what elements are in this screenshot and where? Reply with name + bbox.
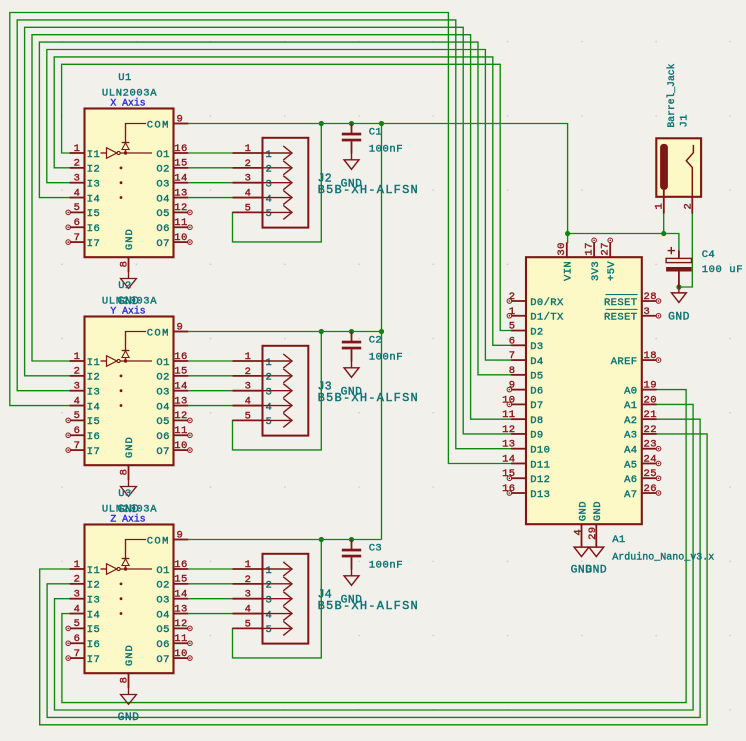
svg-text:B5B-XH-ALFSN: B5B-XH-ALFSN bbox=[318, 599, 419, 613]
U2 pin 1 (I1) bbox=[70, 351, 101, 369]
J2 pin 1 bbox=[233, 143, 293, 161]
J3 value B5B-XH-A(LF)(SN) bbox=[318, 391, 419, 405]
svg-text:19: 19 bbox=[644, 380, 657, 392]
svg-text:7: 7 bbox=[74, 440, 81, 452]
svg-text:I5: I5 bbox=[87, 416, 100, 428]
J4 pin 3 bbox=[233, 589, 293, 607]
svg-text:27: 27 bbox=[600, 242, 612, 255]
A1 pin 20 (A1) bbox=[624, 394, 657, 412]
svg-text:9: 9 bbox=[177, 321, 184, 333]
wire bbox=[188, 539, 381, 541]
A1 pin 8 (D5) bbox=[509, 365, 544, 383]
svg-text:26: 26 bbox=[644, 483, 657, 495]
svg-text:15: 15 bbox=[174, 366, 187, 378]
svg-text:5: 5 bbox=[245, 202, 252, 214]
U3 pin 14 (O3) bbox=[156, 589, 188, 607]
svg-text:D9: D9 bbox=[530, 430, 543, 442]
svg-text:D6: D6 bbox=[530, 385, 543, 397]
svg-text:15: 15 bbox=[174, 158, 187, 170]
ground bbox=[341, 154, 363, 191]
J4 pin 2 bbox=[233, 574, 293, 592]
svg-text:D7: D7 bbox=[530, 400, 543, 412]
svg-text:14: 14 bbox=[174, 589, 187, 601]
J3 pin 3 bbox=[233, 381, 293, 399]
junction bbox=[319, 121, 324, 126]
J4 pin 1 bbox=[233, 559, 293, 577]
svg-text:7: 7 bbox=[509, 350, 516, 362]
svg-text:8: 8 bbox=[119, 261, 131, 268]
svg-text:C3: C3 bbox=[369, 543, 382, 555]
A1 pin 4 (GND) bbox=[572, 501, 589, 547]
A1 pin 5 (D2) bbox=[509, 321, 544, 339]
svg-text:O4: O4 bbox=[156, 401, 169, 413]
svg-text:GND: GND bbox=[585, 564, 607, 576]
svg-text:3: 3 bbox=[74, 173, 81, 185]
svg-text:A7: A7 bbox=[624, 489, 637, 501]
svg-text:GND: GND bbox=[668, 311, 690, 323]
svg-text:5: 5 bbox=[74, 618, 81, 630]
svg-text:Z Axis: Z Axis bbox=[110, 514, 145, 525]
svg-text:COM: COM bbox=[147, 119, 170, 131]
svg-text:12: 12 bbox=[502, 424, 515, 436]
svg-text:O3: O3 bbox=[156, 595, 169, 607]
svg-text:GND: GND bbox=[124, 644, 136, 666]
svg-text:O1: O1 bbox=[156, 565, 169, 577]
U2 pin 7 (I7) bbox=[66, 440, 100, 458]
U2 pin 15 (O2) bbox=[156, 366, 188, 384]
svg-text:C1: C1 bbox=[369, 127, 382, 139]
A1 pin 16 (D13) bbox=[502, 483, 550, 501]
C3 reference bbox=[369, 543, 382, 555]
svg-text:D13: D13 bbox=[530, 489, 550, 501]
U3 pin 4 (I4) bbox=[70, 603, 101, 621]
svg-text:O2: O2 bbox=[156, 372, 169, 384]
svg-text:A2: A2 bbox=[624, 415, 637, 427]
svg-text:17: 17 bbox=[584, 242, 596, 255]
svg-text:1: 1 bbox=[654, 203, 666, 210]
junction bbox=[565, 231, 570, 236]
svg-text:14: 14 bbox=[502, 453, 515, 465]
connector J3 body bbox=[263, 346, 309, 436]
svg-text:O3: O3 bbox=[156, 179, 169, 191]
U2 pin 2 (I2) bbox=[70, 366, 101, 384]
svg-text:4: 4 bbox=[74, 603, 81, 615]
U2 pin 4 (I4) bbox=[70, 395, 101, 413]
U1 pin 13 (O4) bbox=[156, 187, 188, 205]
svg-text:1: 1 bbox=[245, 351, 252, 363]
svg-text:5: 5 bbox=[266, 208, 273, 220]
A1 pin 11 (D8) bbox=[502, 409, 544, 427]
svg-text:5: 5 bbox=[74, 202, 81, 214]
svg-text:I3: I3 bbox=[87, 179, 100, 191]
wire bbox=[47, 50, 511, 361]
label "Y Axis" bbox=[110, 306, 145, 317]
A1 pin 17 (3V3) bbox=[584, 238, 603, 281]
U2 pin 16 (O1) bbox=[156, 351, 188, 369]
svg-text:8: 8 bbox=[119, 677, 131, 684]
wire bbox=[188, 583, 232, 585]
U2 pin 8 (GND) bbox=[119, 436, 136, 480]
svg-text:D3: D3 bbox=[530, 341, 543, 353]
A1 pin 1 (D1/TX) bbox=[507, 306, 564, 324]
A1 value Arduino_Nano_v3.x bbox=[612, 552, 714, 564]
svg-text:I4: I4 bbox=[87, 193, 100, 205]
svg-text:5: 5 bbox=[509, 321, 516, 333]
svg-text:22: 22 bbox=[644, 424, 657, 436]
svg-text:4: 4 bbox=[74, 395, 81, 407]
U1 pin 14 (O3) bbox=[156, 173, 188, 191]
U1 pin 3 (I3) bbox=[70, 173, 101, 191]
A1 pin 14 (D11) bbox=[502, 453, 550, 471]
svg-text:12: 12 bbox=[174, 618, 187, 630]
wire bbox=[663, 214, 665, 234]
wire bbox=[233, 124, 322, 242]
svg-text:1: 1 bbox=[266, 357, 273, 369]
svg-text:O6: O6 bbox=[156, 431, 169, 443]
svg-text:U3: U3 bbox=[118, 488, 131, 500]
svg-text:O4: O4 bbox=[156, 609, 169, 621]
wire bbox=[55, 404, 694, 710]
svg-text:D4: D4 bbox=[530, 356, 543, 368]
U3 reference bbox=[118, 488, 131, 500]
U2 reference bbox=[118, 280, 131, 292]
svg-text:4: 4 bbox=[266, 609, 273, 621]
ground bbox=[585, 547, 607, 576]
svg-text:U1: U1 bbox=[118, 72, 131, 84]
svg-text:11: 11 bbox=[174, 425, 187, 437]
junction bbox=[379, 121, 384, 126]
svg-text:2: 2 bbox=[682, 203, 694, 210]
A1 pin 26 (A7) bbox=[624, 483, 661, 501]
U2 pin 9 COM bbox=[147, 321, 189, 339]
svg-text:1: 1 bbox=[266, 149, 273, 161]
svg-text:I5: I5 bbox=[87, 208, 100, 220]
U3 pin 11 (O6) bbox=[156, 633, 192, 651]
svg-text:6: 6 bbox=[74, 217, 81, 229]
svg-text:O6: O6 bbox=[156, 639, 169, 651]
svg-text:I2: I2 bbox=[87, 164, 100, 176]
svg-text:O4: O4 bbox=[156, 193, 169, 205]
svg-text:D10: D10 bbox=[530, 445, 550, 457]
svg-text:2: 2 bbox=[74, 574, 81, 586]
connector J2 body bbox=[263, 138, 309, 228]
wire bbox=[188, 598, 232, 600]
svg-text:B5B-XH-ALFSN: B5B-XH-ALFSN bbox=[318, 183, 419, 197]
U2 pin 3 (I3) bbox=[70, 381, 101, 399]
svg-text:11: 11 bbox=[174, 633, 187, 645]
svg-text:3: 3 bbox=[266, 595, 273, 607]
wire bbox=[568, 234, 679, 251]
wire bbox=[62, 64, 512, 330]
svg-text:9: 9 bbox=[177, 113, 184, 125]
svg-text:6: 6 bbox=[509, 335, 516, 347]
J4 pin 4 bbox=[233, 604, 293, 622]
J2 pin 3 bbox=[233, 173, 293, 191]
svg-text:3: 3 bbox=[644, 306, 651, 318]
svg-text:O5: O5 bbox=[156, 624, 169, 636]
junction bbox=[349, 329, 354, 334]
U1 pin 6 (I6) bbox=[66, 217, 100, 235]
A1 pin 19 (A0) bbox=[624, 380, 657, 398]
J1 reference bbox=[679, 114, 691, 127]
wire bbox=[188, 182, 232, 184]
wire bbox=[188, 124, 567, 243]
ground bbox=[341, 570, 363, 607]
A1 pin 23 (A4) bbox=[624, 439, 661, 457]
svg-text:2: 2 bbox=[266, 164, 273, 176]
A1 pin 13 (D10) bbox=[502, 439, 550, 457]
U1 pin 11 (O6) bbox=[156, 217, 192, 235]
svg-text:3: 3 bbox=[245, 173, 252, 185]
svg-text:5: 5 bbox=[266, 624, 273, 636]
svg-text:6: 6 bbox=[74, 425, 81, 437]
svg-text:4: 4 bbox=[266, 193, 273, 205]
svg-text:I3: I3 bbox=[87, 387, 100, 399]
svg-text:D12: D12 bbox=[530, 474, 550, 486]
svg-text:18: 18 bbox=[644, 350, 657, 362]
svg-text:1: 1 bbox=[266, 565, 273, 577]
J1 pin 1 bbox=[654, 190, 666, 214]
svg-text:O2: O2 bbox=[156, 580, 169, 592]
junction bbox=[349, 121, 354, 126]
A1 pin 12 (D9) bbox=[502, 424, 544, 442]
junction bbox=[661, 231, 666, 236]
wire bbox=[17, 20, 511, 449]
svg-text:4: 4 bbox=[245, 396, 252, 408]
svg-text:GND: GND bbox=[341, 179, 363, 191]
ground bbox=[668, 287, 690, 323]
svg-text:5: 5 bbox=[245, 618, 252, 630]
U1 value ULN2003A bbox=[102, 88, 157, 100]
svg-text:GND: GND bbox=[341, 387, 363, 399]
svg-text:7: 7 bbox=[74, 232, 81, 244]
U3 pin 16 (O1) bbox=[156, 559, 188, 577]
svg-text:I3: I3 bbox=[87, 595, 100, 607]
svg-text:I6: I6 bbox=[87, 223, 100, 235]
connector J4 body bbox=[263, 554, 309, 644]
wire bbox=[381, 124, 383, 540]
svg-text:11: 11 bbox=[174, 217, 187, 229]
svg-text:8: 8 bbox=[119, 469, 131, 476]
wire bbox=[54, 57, 511, 345]
svg-text:COM: COM bbox=[147, 327, 170, 339]
A1 pin 2 (D0/RX) bbox=[507, 291, 564, 309]
ground bbox=[571, 547, 593, 576]
J1 pin 2 bbox=[682, 197, 694, 214]
U3 pin 13 (O4) bbox=[156, 603, 188, 621]
svg-text:I7: I7 bbox=[87, 654, 100, 666]
J2 pin 2 bbox=[233, 158, 293, 176]
svg-text:3: 3 bbox=[74, 589, 81, 601]
U1 pin 8 (GND) bbox=[119, 228, 136, 272]
svg-text:O5: O5 bbox=[156, 208, 169, 220]
U1 internal darlington with diode bbox=[101, 124, 153, 199]
svg-text:1: 1 bbox=[245, 559, 252, 571]
U1 pin 4 (I4) bbox=[70, 187, 101, 205]
U1 pin 10 (O7) bbox=[156, 232, 192, 250]
label "X Axis" bbox=[110, 98, 145, 109]
svg-text:2: 2 bbox=[266, 580, 273, 592]
J4 value B5B-XH-A(LF)(SN) bbox=[318, 599, 419, 613]
svg-text:A1: A1 bbox=[624, 400, 637, 412]
svg-text:1: 1 bbox=[74, 143, 81, 155]
U1 pin 5 (I5) bbox=[66, 202, 100, 220]
U3 pin 5 (I5) bbox=[66, 618, 100, 636]
svg-text:GND: GND bbox=[124, 228, 136, 250]
IC U1 ULN2003A body bbox=[85, 109, 174, 258]
wire bbox=[188, 613, 232, 615]
wire bbox=[10, 13, 511, 464]
svg-text:2: 2 bbox=[245, 366, 252, 378]
svg-text:I2: I2 bbox=[87, 580, 100, 592]
svg-text:O1: O1 bbox=[156, 357, 169, 369]
svg-text:GND: GND bbox=[577, 501, 589, 521]
svg-text:3: 3 bbox=[245, 381, 252, 393]
J2 value B5B-XH-A(LF)(SN) bbox=[318, 183, 419, 197]
svg-text:X Axis: X Axis bbox=[110, 98, 145, 109]
junction bbox=[676, 284, 681, 289]
J2 reference bbox=[318, 172, 332, 185]
svg-text:I6: I6 bbox=[87, 431, 100, 443]
C2 value 100nF bbox=[369, 352, 404, 364]
A1 pin 6 (D3) bbox=[509, 335, 544, 353]
U2 pin 10 (O7) bbox=[156, 440, 192, 458]
A1 pin 30 (VIN) bbox=[556, 242, 575, 281]
svg-text:3: 3 bbox=[74, 381, 81, 393]
svg-text:A0: A0 bbox=[624, 385, 637, 397]
J2 pin 5 bbox=[233, 202, 293, 220]
svg-text:6: 6 bbox=[74, 633, 81, 645]
svg-text:I4: I4 bbox=[87, 401, 100, 413]
svg-text:A6: A6 bbox=[624, 474, 637, 486]
U1 pin 9 COM bbox=[147, 113, 189, 131]
svg-text:15: 15 bbox=[174, 574, 187, 586]
svg-text:2: 2 bbox=[245, 574, 252, 586]
U3 pin 1 (I1) bbox=[70, 559, 101, 577]
svg-text:VIN: VIN bbox=[563, 261, 575, 281]
IC U3 ULN2003A body bbox=[85, 525, 174, 674]
svg-text:I6: I6 bbox=[87, 639, 100, 651]
wire bbox=[40, 434, 707, 725]
svg-text:I5: I5 bbox=[87, 624, 100, 636]
svg-text:12: 12 bbox=[174, 202, 187, 214]
svg-text:16: 16 bbox=[174, 559, 187, 571]
svg-text:4: 4 bbox=[74, 187, 81, 199]
svg-text:9: 9 bbox=[177, 529, 184, 541]
wire bbox=[32, 35, 511, 420]
J3 pin 2 bbox=[233, 366, 293, 384]
U3 pin 8 (GND) bbox=[119, 644, 136, 688]
svg-text:+5V: +5V bbox=[606, 261, 618, 281]
IC A1 Arduino Nano body bbox=[526, 257, 642, 524]
svg-text:O7: O7 bbox=[156, 446, 169, 458]
svg-text:100nF: 100nF bbox=[369, 144, 404, 156]
svg-text:13: 13 bbox=[174, 187, 187, 199]
junction bbox=[349, 537, 354, 542]
svg-text:2: 2 bbox=[245, 158, 252, 170]
A1 pin 21 (A2) bbox=[624, 409, 657, 427]
C2 reference bbox=[369, 335, 382, 347]
J3 pin 1 bbox=[233, 351, 293, 369]
svg-text:A4: A4 bbox=[624, 445, 637, 457]
wire bbox=[188, 405, 232, 407]
J4 reference bbox=[318, 588, 332, 601]
U2 pin 6 (I6) bbox=[66, 425, 100, 443]
U1 pin 2 (I2) bbox=[70, 158, 101, 176]
ground bbox=[341, 362, 363, 399]
U1 pin 12 (O5) bbox=[156, 202, 192, 220]
svg-text:D0/RX: D0/RX bbox=[530, 297, 564, 309]
wire bbox=[188, 360, 232, 362]
U3 pin 2 (I2) bbox=[70, 574, 101, 592]
svg-text:1: 1 bbox=[74, 351, 81, 363]
A1 pin 7 (D4) bbox=[509, 350, 544, 368]
svg-text:D1/TX: D1/TX bbox=[530, 312, 564, 324]
svg-text:O6: O6 bbox=[156, 223, 169, 235]
svg-text:29: 29 bbox=[587, 526, 599, 539]
svg-text:I7: I7 bbox=[87, 238, 100, 250]
svg-text:2: 2 bbox=[266, 372, 273, 384]
A1 pin 15 (D12) bbox=[502, 468, 550, 486]
svg-text:28: 28 bbox=[644, 291, 657, 303]
wire bbox=[62, 390, 686, 703]
svg-text:30: 30 bbox=[556, 242, 568, 255]
svg-text:5: 5 bbox=[245, 410, 252, 422]
barrel jack J1 body bbox=[656, 138, 701, 197]
wire bbox=[233, 540, 322, 658]
C4 value 100 uF bbox=[702, 264, 743, 276]
U1 pin 15 (O2) bbox=[156, 158, 188, 176]
wire bbox=[25, 27, 512, 434]
svg-text:10: 10 bbox=[174, 648, 187, 660]
C4 reference bbox=[702, 249, 715, 261]
svg-text:I1: I1 bbox=[87, 565, 100, 577]
svg-text:4: 4 bbox=[266, 401, 273, 413]
junction bbox=[379, 329, 384, 334]
U1 pin 16 (O1) bbox=[156, 143, 188, 161]
J2 pin 4 bbox=[233, 188, 293, 206]
svg-text:D11: D11 bbox=[530, 459, 550, 471]
svg-text:23: 23 bbox=[644, 439, 657, 451]
wire bbox=[233, 332, 322, 450]
junction bbox=[319, 329, 324, 334]
wire bbox=[188, 375, 232, 377]
U3 pin 6 (I6) bbox=[66, 633, 100, 651]
svg-text:12: 12 bbox=[174, 410, 187, 422]
svg-text:1: 1 bbox=[74, 559, 81, 571]
U2 internal darlington with diode bbox=[101, 332, 153, 407]
U3 pin 15 (O2) bbox=[156, 574, 188, 592]
U3 internal darlington with diode bbox=[101, 540, 153, 615]
C3 value 100nF bbox=[369, 560, 404, 572]
svg-text:O2: O2 bbox=[156, 164, 169, 176]
svg-text:O7: O7 bbox=[156, 238, 169, 250]
svg-text:A1: A1 bbox=[612, 534, 625, 546]
svg-text:8: 8 bbox=[509, 365, 516, 377]
svg-text:21: 21 bbox=[644, 409, 657, 421]
svg-text:2: 2 bbox=[74, 158, 81, 170]
U3 pin 3 (I3) bbox=[70, 589, 101, 607]
wire bbox=[188, 568, 232, 570]
svg-text:O3: O3 bbox=[156, 387, 169, 399]
svg-text:10: 10 bbox=[174, 232, 187, 244]
wire bbox=[39, 42, 511, 375]
wire bbox=[188, 331, 381, 333]
A1 pin 25 (A6) bbox=[624, 468, 661, 486]
U1 pin 1 (I1) bbox=[70, 143, 101, 161]
svg-text:GND: GND bbox=[124, 436, 136, 458]
capacitor C2 100nF bbox=[342, 332, 361, 362]
